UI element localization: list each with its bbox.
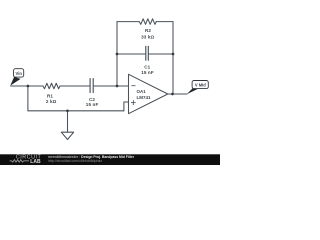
svg-text:C1: C1 [144,64,150,69]
node dot output junction [171,93,174,96]
node dot feedback/input junction [116,85,119,88]
svg-text:R2: R2 [145,28,151,33]
op-amp minus sign [131,85,135,87]
capacitor C1 [146,46,149,60]
op-amp plus sign [131,100,136,105]
wire Vin to R1 [11,85,43,87]
resistor R2 [139,19,156,25]
node dot ground junction [66,109,69,112]
svg-text:OA1: OA1 [137,89,147,94]
wire step up to plus input [124,102,129,111]
svg-text:meredithmcalester : Design Pro: meredithmcalester : Design Proj. Bandpas… [48,155,135,159]
svg-text:15 nF: 15 nF [86,102,99,107]
svg-text:V Mid: V Mid [195,83,206,88]
node dot Vin junction [27,85,30,88]
node dot C1 right [172,53,175,56]
wire bottom rail [28,110,124,112]
svg-text:LAB: LAB [30,159,41,165]
wire C1 branch left [117,53,145,55]
svg-text:Vin: Vin [16,71,23,76]
labels [46,28,155,107]
svg-text:2 kΩ: 2 kΩ [46,99,57,104]
flag V Mid [187,81,209,95]
wire C1 branch right [149,53,173,55]
capacitor C2 [90,79,93,93]
wire C2 to op-amp minus input [94,85,129,87]
node dot C1 left [116,53,119,56]
svg-text:R1: R1 [47,93,53,98]
wire top left to R2 [117,21,139,23]
wire left drop from Vin node [27,86,29,111]
wire R2 to top right corner [156,21,173,23]
op-amp U1 triangle [129,74,168,113]
svg-text:LM741: LM741 [137,95,152,100]
wire feedback right vertical [172,22,174,94]
flag Vin [10,69,23,86]
footer logo zigzag [10,160,29,163]
svg-text:http://circuitlab.com/c6bhob6d: http://circuitlab.com/c6bhob6dphax [48,159,102,163]
footer bar [0,154,220,165]
svg-text:33 kΩ: 33 kΩ [141,35,154,40]
svg-text:15 nF: 15 nF [141,70,154,75]
wire R1 to C2 [60,85,90,87]
wire feedback left vertical [116,22,118,86]
ground [61,132,73,139]
wire output [168,93,187,95]
resistor R1 [43,83,60,89]
wire ground stub [67,111,69,132]
